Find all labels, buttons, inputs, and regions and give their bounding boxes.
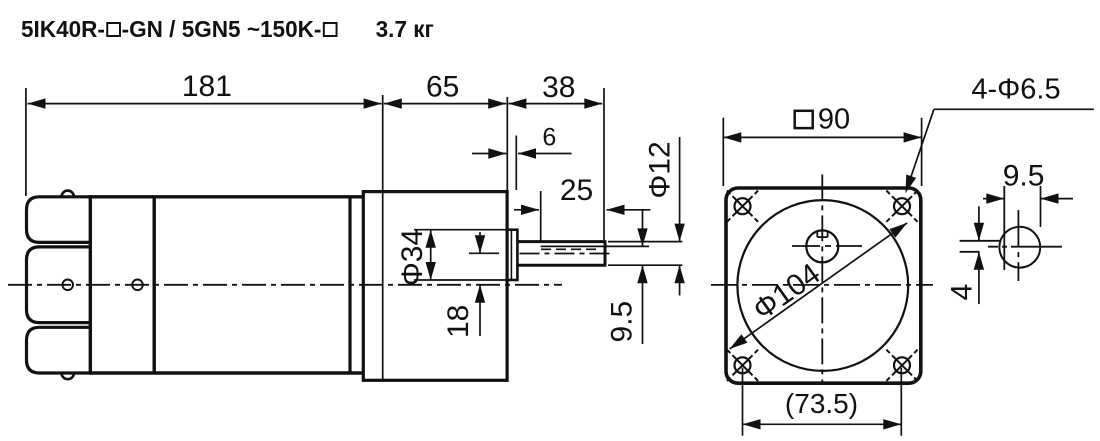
svg-text:4-Φ6.5: 4-Φ6.5 [971,73,1060,105]
svg-text:65: 65 [426,71,459,104]
svg-text:Φ12: Φ12 [644,141,677,198]
svg-text:Φ34: Φ34 [396,229,429,286]
svg-text:9.5: 9.5 [1003,159,1045,192]
svg-text:9.5: 9.5 [606,301,639,343]
svg-text:18: 18 [442,305,475,338]
svg-text:181: 181 [182,70,232,103]
svg-text:4: 4 [945,284,978,301]
svg-text:38: 38 [542,71,575,104]
svg-text:90: 90 [818,104,850,136]
svg-text:(73.5): (73.5) [785,388,858,419]
svg-text:6: 6 [542,124,556,152]
svg-text:Φ104: Φ104 [747,257,826,327]
svg-text:25: 25 [560,174,593,207]
